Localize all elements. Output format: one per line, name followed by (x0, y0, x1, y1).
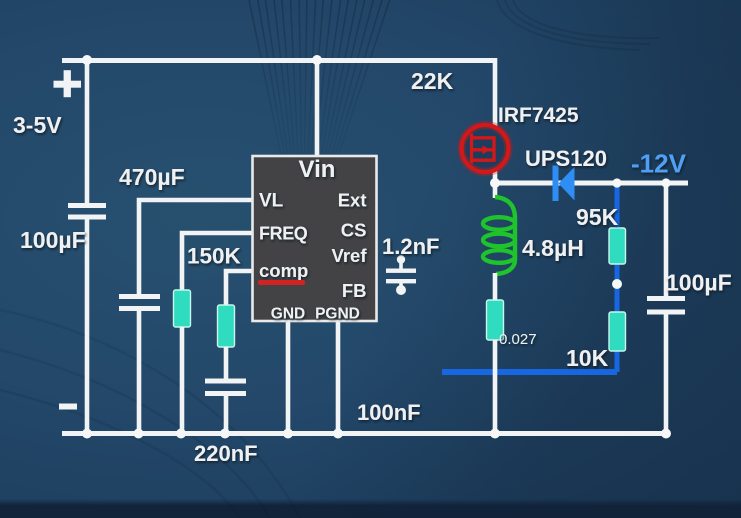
svg-text:comp: comp (259, 260, 308, 281)
wire top rail from battery + to 22K corner (62, 58, 495, 63)
wire 150K to ground rail (180, 327, 185, 433)
svg-text:95K: 95K (576, 204, 619, 230)
node -12V rail divider junction (612, 178, 621, 187)
svg-text:220nF: 220nF (194, 441, 258, 466)
svg-text:10K: 10K (566, 345, 609, 371)
svg-text:VL: VL (259, 191, 284, 212)
svg-text:4.8µH: 4.8µH (522, 235, 584, 261)
wire left battery vertical upper (85, 60, 90, 203)
wire FREQ pin to 150K (182, 233, 252, 291)
svg-text:Vref: Vref (332, 245, 368, 266)
capacitor C5 1.2nF floating (386, 255, 416, 295)
node -12V rail MOSFET junction (490, 178, 500, 188)
wire feedback blue vertical (615, 184, 620, 372)
capacitor C1 100uF left plates (68, 203, 106, 220)
svg-text:470µF: 470µF (119, 164, 185, 190)
svg-text:1.2nF: 1.2nF (382, 234, 439, 259)
svg-text:Ext: Ext (338, 190, 367, 211)
svg-text:3-5V: 3-5V (13, 112, 62, 138)
wire -12V output rail (495, 181, 688, 186)
svg-text:100µF: 100µF (666, 270, 732, 296)
wire output cap branch upper (664, 183, 669, 296)
battery minus terminal (59, 404, 77, 410)
svg-text:IRF7425: IRF7425 (498, 104, 579, 127)
wire MOSFET to -12V node (493, 168, 498, 185)
capacitor C2 470uF plates (119, 294, 160, 311)
wire 22K branch down to MOSFET (493, 58, 498, 128)
IC U1 pin labels (259, 156, 367, 323)
wire comp pin to compensation branch (226, 271, 252, 306)
node top rail Vin junction (312, 55, 322, 65)
wire left battery vertical lower (85, 219, 90, 433)
wire inductor top stub (493, 183, 498, 198)
wire Vin pin to top rail (315, 60, 320, 156)
wire inductor bottom stub (493, 273, 498, 301)
svg-text:GND: GND (271, 306, 305, 323)
svg-text:0.027: 0.027 (499, 331, 537, 348)
node divider junction dot (612, 279, 622, 289)
battery plus terminal (54, 70, 82, 97)
wire 0.027 to ground rail (493, 340, 498, 433)
wire GND pin to ground rail (286, 321, 291, 433)
svg-text:FB: FB (342, 280, 367, 301)
resistor R5 95K body (609, 228, 626, 264)
resistor R6 10K body (609, 312, 626, 351)
transistor Q1 IRF7425 symbol (462, 125, 509, 172)
wire 470uF to ground rail (137, 311, 142, 433)
svg-text:100nF: 100nF (357, 400, 421, 425)
node ground rail junctions (82, 429, 671, 439)
svg-text:PGND: PGND (315, 306, 360, 323)
svg-text:CS: CS (341, 220, 367, 241)
node top rail battery junction (82, 55, 92, 65)
wire PGND pin to ground rail (336, 321, 341, 433)
comp pin red underline (258, 280, 305, 285)
capacitor C4 100uF output plates (647, 296, 685, 315)
resistor R2 150K body (174, 290, 191, 327)
node -12V rail cap junction (661, 178, 670, 187)
IC U1 regulator body (253, 156, 377, 321)
svg-text:FREQ: FREQ (259, 224, 308, 244)
wire bottom ground rail (62, 431, 668, 436)
capacitor C3 220nF plates (205, 379, 246, 397)
wire VL pin to 470uF branch (139, 200, 252, 294)
svg-text:150K: 150K (187, 244, 242, 269)
svg-text:UPS120: UPS120 (525, 146, 607, 171)
svg-text:100µF: 100µF (20, 227, 86, 253)
resistor R3 comp body (218, 305, 235, 347)
svg-text:-12V: -12V (631, 149, 687, 179)
wire output cap branch lower (664, 315, 669, 434)
svg-text:22K: 22K (411, 68, 454, 94)
svg-text:Vin: Vin (299, 156, 336, 183)
wire feedback blue horizontal (442, 369, 617, 375)
inductor L1 4.8uH coil (483, 197, 515, 274)
resistor R4 0.027 body (487, 300, 504, 340)
wire comp resistor to 220nF (224, 347, 229, 379)
wire 220nF to ground rail (224, 396, 229, 433)
diode D1 UPS120 (553, 166, 575, 202)
